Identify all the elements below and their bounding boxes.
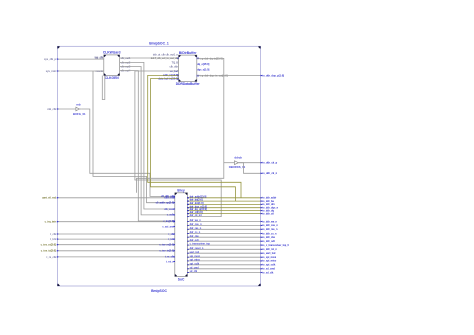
port tick ddr_ras_n (261, 229, 263, 231)
wire port uart_rtl_rxd (57, 197, 174, 199)
svg-text:ddr_ui_clk clk_out1_n: ddr_ui_clk clk_out1_n (153, 53, 179, 56)
SoC left pin stub (173, 243, 175, 246)
svg-text:io_ddr_cke: io_ddr_cke (262, 236, 275, 239)
buffer OBUFDS symbol (235, 161, 239, 165)
DDRbuf lpin1 bus tick (177, 57, 179, 58)
svg-text:ddr_cas_n: ddr_cas_n (190, 223, 202, 226)
port tick ddr_ck_p (261, 162, 263, 164)
block CLKGEN (104, 55, 120, 76)
wire bus SoC addr to DDRbuf (148, 75, 241, 197)
block DDRDataBuffer (179, 55, 197, 81)
svg-text:sys_clk_p: sys_clk_p (44, 58, 56, 61)
SoC right pin stub spi_sclk (187, 263, 189, 266)
svg-text:io_spi_mosi: io_spi_mosi (262, 256, 276, 259)
wire SoC out ddr_dm[1:0] (187, 203, 260, 205)
svg-text:spi_mosi: spi_mosi (190, 255, 201, 258)
SoC left pin stub (173, 213, 175, 216)
wire SoC out ddr_odt (187, 240, 260, 242)
svg-text:ddr_odt: ddr_odt (190, 239, 199, 242)
SoC corner TL (175, 193, 177, 195)
wire SoC out ddr_ctl[1:0] (187, 213, 260, 215)
port tick ddr_cs_n (261, 233, 263, 235)
wire port t_tck (57, 238, 174, 240)
svg-text:io_ddr_ck_p: io_ddr_ck_p (262, 162, 277, 165)
DDRbuf corner TL (179, 55, 181, 57)
svg-text:BmipSOC: BmipSOC (151, 289, 167, 293)
wire SoC out c_transceiver_txp (187, 244, 260, 246)
port tick t_rx_clk (57, 256, 59, 258)
port tick c_irq_intr (57, 221, 59, 223)
port tick ddr_ctl[1:0] (261, 213, 263, 215)
SoC left pin stub (173, 233, 175, 236)
SoC left pin stub (173, 249, 175, 252)
SoC right pin stub ddr_cas_n (187, 224, 189, 227)
block Brey SoC (175, 193, 188, 277)
CLKGEN corner TL (104, 55, 106, 57)
SoC right pin stub ddr_ck_int (187, 215, 189, 218)
wire SoC out sd_cmd (187, 268, 260, 270)
port tick ddr_dq_o[15:0] (261, 210, 263, 212)
wire SoC out ddr_cas_n (187, 224, 260, 226)
wire port mb_clk to BUFG (57, 108, 74, 110)
port tick sd_cmd (261, 268, 263, 270)
wire port t_clk (57, 233, 174, 235)
SoC corner BL (175, 274, 177, 276)
wire SoC out ddr_we_n (187, 221, 260, 223)
SoC left pin stub (173, 208, 175, 211)
wire port c_tsv_tx[3:0] (57, 250, 174, 252)
svg-text:Brey: Brey (177, 188, 184, 192)
DDRbuf lpin6 bus tick (177, 78, 179, 79)
SoC right pin stub ddr_ctl[1:0] (187, 213, 189, 214)
wire clk_out3 to SoC (120, 67, 175, 215)
svg-text:dq_o[15:0]: dq_o[15:0] (197, 63, 209, 66)
port tick uart_rtl_rxd (57, 197, 59, 199)
wire SoC out sd_clk (187, 272, 260, 274)
CLKGEN corner BR (118, 74, 120, 76)
wire SoC out ddr_ras_n (187, 228, 260, 230)
svg-text:io_ddr_ctl: io_ddr_ctl (262, 212, 274, 215)
svg-text:sys_clk: sys_clk (94, 56, 103, 59)
svg-text:sd_clk: sd_clk (190, 270, 198, 273)
wire port sys_clk_p to CLKGEN (57, 58, 103, 60)
svg-text:clk_out1: clk_out1 (121, 57, 131, 60)
SoC right pin stub ddr_dm[1:0] (187, 204, 189, 205)
svg-text:c_tsv_tx[3:0]: c_tsv_tx[3:0] (41, 250, 56, 253)
SoC right pin stub ddr_cke (187, 236, 189, 239)
svg-text:c_irq[1:0]: c_irq[1:0] (163, 220, 174, 223)
SoC right pin stub ddr_reset_n (187, 248, 189, 251)
wire port c_tsv_rx[3:0] (57, 244, 174, 246)
svg-text:io_ddr_cs_n: io_ddr_cs_n (262, 232, 277, 235)
svg-text:sys_rstn: sys_rstn (46, 70, 57, 73)
svg-text:c0_addr_cp[2:0]: c0_addr_cp[2:0] (156, 202, 175, 205)
svg-text:io_spi_miso: io_spi_miso (262, 260, 276, 263)
port tick ddr_cas_n (261, 225, 263, 227)
svg-text:mb_clk: mb_clk (47, 108, 56, 111)
SoC corner TR (185, 193, 187, 195)
wire SoC out ddr_ba[2:0] (187, 200, 260, 202)
svg-text:io_uart_txd: io_uart_txd (262, 252, 275, 255)
port tick c_transceiver_txp (261, 244, 263, 246)
svg-text:c_tsv_rx[3:0]: c_tsv_rx[3:0] (159, 244, 174, 247)
wire DDRbuf dq to OBUFDS column (137, 58, 224, 192)
port tick spi_mosi (261, 256, 263, 258)
svg-text:ddr_cs_n: ddr_cs_n (190, 231, 201, 234)
buffer BUFG mb symbol (76, 107, 79, 111)
svg-text:BmipSOC_1: BmipSOC_1 (149, 42, 169, 46)
outer corner BR (258, 284, 260, 286)
wire port t_rx_clk (57, 256, 174, 258)
wire bus SoC data to DDRbuf (151, 79, 236, 202)
port tick c_tsv_rx[3:0] (57, 244, 59, 246)
wire SoC out ddr_cs_n (187, 233, 260, 235)
port tick ddr_reset_n (261, 249, 263, 251)
DDRbuf corner BR (195, 80, 197, 82)
outer hierarchy box BmipSOC_1 (57, 46, 260, 286)
port tick t_clk (57, 233, 59, 235)
wire SoC out ddr_dq_o[15:0] (187, 210, 260, 212)
SoC right pin stub sd_cmd (187, 267, 189, 270)
svg-text:CLKGEN: CLKGEN (105, 76, 120, 80)
wire resetn branch down (93, 71, 175, 203)
svg-text:spi_sclk: spi_sclk (190, 262, 200, 265)
svg-text:BiDirBuffer: BiDirBuffer (179, 51, 197, 55)
svg-text:ddr4_clk_sel_in_out_dq: ddr4_clk_sel_in_out_dq (151, 57, 179, 60)
svg-text:clk_core: clk_core (164, 208, 174, 211)
svg-text:DDRDataBuffer: DDRDataBuffer (176, 82, 201, 86)
wire ddr_ck_p (238, 162, 260, 164)
BUFG input stub (74, 108, 76, 110)
svg-text:uart_rtl_rxd: uart_rtl_rxd (42, 197, 56, 200)
svg-text:ddr_reset_n: ddr_reset_n (190, 247, 204, 250)
svg-text:s_axi_arst: s_axi_arst (162, 225, 174, 228)
SoC left pin stub (173, 260, 175, 263)
svg-text:uart_txd: uart_txd (190, 251, 200, 254)
svg-text:t_tck: t_tck (50, 238, 57, 241)
BUFG output stub (79, 108, 81, 110)
SoC right pin stub spi_miso (187, 259, 189, 262)
DDRbuf rpin4 bus tick (197, 75, 199, 76)
svg-text:CLKWizard: CLKWizard (103, 51, 121, 55)
svg-text:SoC: SoC (178, 277, 185, 281)
port tick resetn (57, 70, 59, 72)
svg-text:t_rx_clk: t_rx_clk (165, 256, 175, 259)
wire port c_irq_intr (57, 221, 174, 223)
port tick mb_clk (57, 108, 59, 110)
svg-text:ddr_we_n: ddr_we_n (190, 219, 202, 222)
svg-text:t_clk: t_clk (50, 233, 56, 236)
port tick ddr_cke (261, 236, 263, 238)
port tick ddr_dqs exit (261, 75, 263, 77)
DDRbuf rpin1 bus tick (197, 58, 199, 59)
svg-text:io_spi_sclk: io_spi_sclk (262, 264, 276, 267)
wire SoC out ddr_addr[13:0] (187, 197, 260, 199)
wire SoC out uart_txd (187, 252, 260, 254)
svg-text:c_irq_intr: c_irq_intr (45, 221, 56, 224)
svg-text:io_sd_cmd: io_sd_cmd (262, 268, 275, 271)
svg-text:dqs_o[1:0]: dqs_o[1:0] (197, 69, 209, 72)
CLKGEN corner TR (118, 55, 120, 57)
SoC left pin stub (173, 220, 175, 223)
svg-text:c_tsv_rx[3:0]: c_tsv_rx[3:0] (41, 244, 57, 247)
SoC left pin stub (173, 255, 175, 258)
port tick ddr_ck_n (261, 173, 263, 175)
outer corner BL (57, 284, 59, 286)
DDRbuf lpin5 bus tick (177, 75, 179, 76)
DDRbuf corner BL (179, 80, 181, 82)
svg-text:c_transceiver_txp: c_transceiver_txp (190, 243, 211, 246)
wire SoC to DDRbuf en_buf (135, 71, 221, 217)
wire SoC out spi_mosi (187, 256, 260, 258)
port tick c_tsv_tx[3:0] (57, 250, 59, 252)
SoC right pin stub ddr_addr[13:0] (187, 197, 189, 198)
outer corner TL (57, 46, 59, 48)
wire OBUFDS input (224, 162, 235, 164)
wire port resetn to CLKGEN (57, 70, 103, 72)
svg-text:t_rst_n: t_rst_n (166, 260, 175, 263)
svg-text:io_c_transceiver_txp_0: io_c_transceiver_txp_0 (262, 244, 289, 247)
svg-text:BUFG_01: BUFG_01 (73, 112, 86, 116)
port tick uart_txd (261, 252, 263, 254)
SoC right pin stub ddr_odt (187, 240, 189, 243)
wire SoC out ddr_dqs_n[1:0] (187, 207, 260, 209)
SoC right pin stub spi_mosi (187, 256, 189, 259)
SoC left pin stub (173, 201, 175, 204)
SoC right pin stub uart_txd (187, 252, 189, 255)
wire SoC out ddr_cke (187, 236, 260, 238)
SoC left pin stub (173, 196, 175, 199)
wire BUFG out to SoC pin1 (81, 109, 175, 196)
port tick ddr_addr[13:0] (261, 197, 263, 199)
svg-text:io_ddr_cas_n: io_ddr_cas_n (262, 224, 278, 227)
CLKGEN corner BL (104, 74, 106, 76)
svg-text:c_tsv_tx[3:0]: c_tsv_tx[3:0] (159, 250, 174, 253)
wire ddr_ck_n (238, 163, 260, 174)
svg-text:ddrck: ddrck (234, 155, 242, 159)
port tick sys_clk_p (57, 58, 59, 60)
SoC right pin stub c_transceiver_txp (187, 244, 189, 247)
svg-text:TQ_B: TQ_B (172, 62, 179, 65)
svg-text:sd_cmd: sd_cmd (190, 266, 200, 269)
DDRbuf corner TR (195, 55, 197, 57)
SoC left pin stub (173, 220, 175, 223)
svg-text:ddr_ras_n: ddr_ras_n (190, 227, 202, 230)
port tick ddr_dqs_n[1:0] (261, 207, 263, 209)
port tick ddr_ba[2:0] (261, 200, 263, 202)
SoC right pin stub ddr_ras_n (187, 228, 189, 231)
port tick spi_miso (261, 260, 263, 262)
wire SoC out ddr_reset_n (187, 248, 260, 250)
svg-text:io_ddr_ck_n: io_ddr_ck_n (262, 172, 277, 175)
svg-text:ddr_cke: ddr_cke (190, 235, 200, 238)
SoC right pin stub ddr_dqs_n[1:0] (187, 207, 189, 208)
SoC right pin stub ddr_ba[2:0] (187, 200, 189, 201)
port tick ddr_we_n (261, 221, 263, 223)
svg-text:mb: mb (76, 103, 80, 107)
svg-text:io_sd_clk: io_sd_clk (262, 271, 274, 274)
wire DDRbuf dqs out to edge (197, 75, 261, 77)
wire clk_out1 to DDRbuf (120, 57, 179, 59)
wire SoC out spi_sclk (187, 264, 260, 266)
svg-text:spi_miso: spi_miso (190, 259, 201, 262)
svg-text:ddr_ck_int: ddr_ck_int (190, 214, 202, 217)
SoC left pin stub (173, 195, 175, 198)
svg-text:clk_ddr: clk_ddr (169, 65, 178, 68)
port tick t_tck (57, 238, 59, 240)
SoC right pin stub ddr_dq_o[15:0] (187, 210, 189, 211)
SoC left pin stub (173, 238, 175, 241)
svg-text:io_ddr_odt: io_ddr_odt (262, 240, 275, 243)
SoC right pin stub ddr_cs_n (187, 232, 189, 235)
port tick sd_clk (261, 272, 263, 274)
SoC right pin stub ddr_we_n (187, 220, 189, 223)
wire clk_out2 to SoC (120, 62, 175, 209)
svg-text:t_rx_clk: t_rx_clk (46, 256, 56, 259)
svg-text:uart_rxd: uart_rxd (164, 197, 174, 200)
outer corner TR (258, 46, 260, 48)
svg-text:io_ddr_rst_n: io_ddr_rst_n (262, 248, 277, 251)
wire SoC out spi_miso (187, 260, 260, 262)
SoC right pin stub sd_clk (187, 271, 189, 274)
wire clk_out4 to SoC (120, 71, 175, 221)
svg-text:io_ddr_dqs_p[1:0]: io_ddr_dqs_p[1:0] (262, 75, 284, 78)
port tick ddr_dm[1:0] (261, 204, 263, 206)
svg-text:io_ddr_ras_n: io_ddr_ras_n (262, 228, 278, 231)
SoC corner BR (185, 274, 187, 276)
SoC left pin stub (173, 225, 175, 228)
svg-text:io_ddr_we_n: io_ddr_we_n (262, 220, 277, 223)
port tick spi_sclk (261, 264, 263, 266)
port tick ddr_odt (261, 240, 263, 242)
wire CLKGEN clkfb loop (102, 76, 105, 100)
